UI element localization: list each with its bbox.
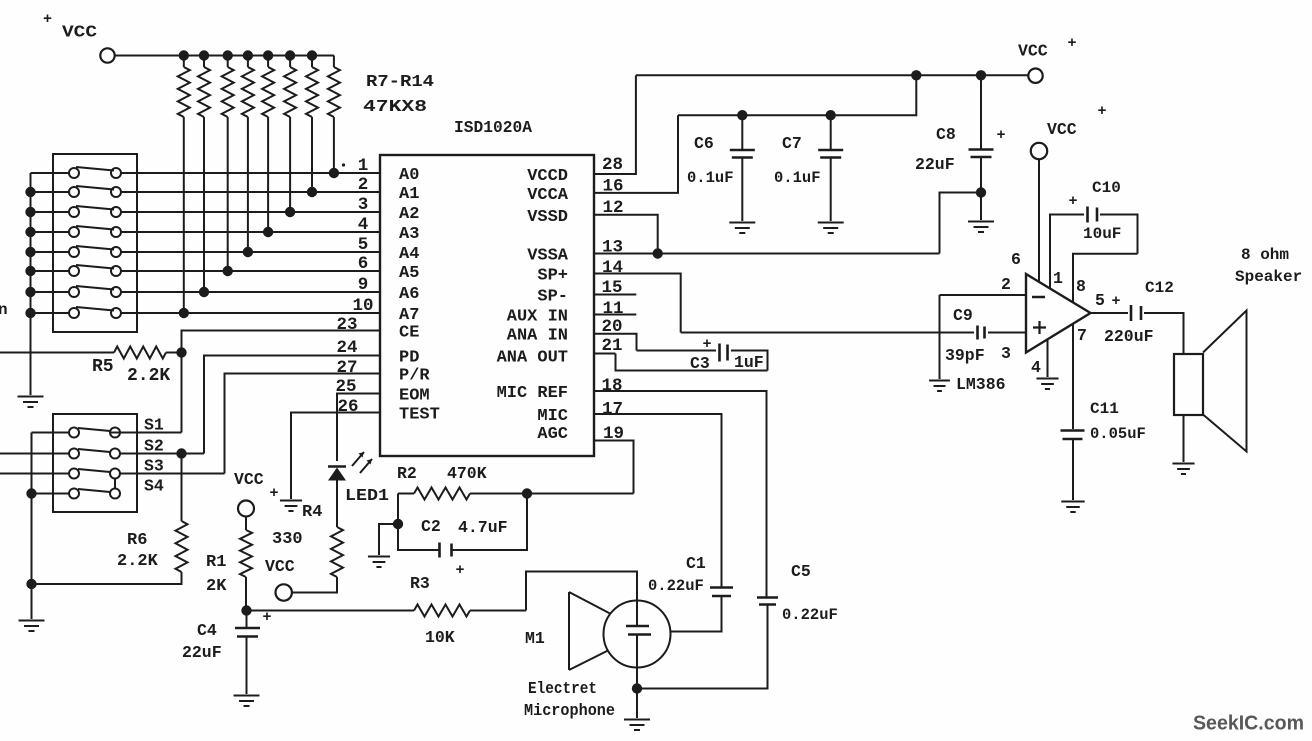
switch lever S4 — [78, 489, 110, 492]
switch lever A5 — [76, 265, 114, 269]
pin number 20 — [602, 317, 623, 337]
wire bus to switch A1 — [31, 191, 70, 193]
switch lever A1 — [76, 186, 114, 190]
junction CE/R5 — [176, 347, 186, 357]
capacitor C10 10uF — [1068, 193, 1097, 223]
label 0.1uF (C7) — [774, 169, 821, 187]
junction C8 bottom — [976, 187, 986, 197]
svg-text:+: + — [269, 485, 278, 502]
pin name TEST — [399, 406, 440, 425]
svg-text:LED1: LED1 — [345, 486, 389, 505]
wire bus to ground — [31, 584, 33, 619]
svg-text:28: 28 — [602, 155, 623, 175]
capacitor C3 1uF — [702, 336, 727, 362]
switch contact left A5 — [69, 266, 79, 276]
stray mark near pin 1 — [342, 163, 345, 166]
svg-text:0.1uF: 0.1uF — [774, 169, 821, 187]
svg-text:+: + — [1111, 293, 1120, 310]
svg-text:A7: A7 — [399, 306, 419, 325]
svg-text:2: 2 — [1001, 275, 1011, 294]
svg-text:C4: C4 — [197, 621, 217, 640]
svg-text:39pF: 39pF — [945, 346, 985, 365]
label C9 — [953, 306, 973, 325]
resistor R1 2K — [240, 517, 252, 611]
label 2K (R1) — [206, 577, 227, 596]
wire mic to C1 — [670, 597, 722, 632]
svg-text:7: 7 — [1077, 326, 1087, 345]
wire amp output — [1091, 312, 1129, 314]
pin number 28 — [602, 155, 623, 175]
svg-text:VCC: VCC — [1018, 42, 1048, 61]
wire EOM to LED1 — [337, 394, 380, 462]
pin name EOM — [399, 387, 430, 406]
pin number 19 — [603, 424, 624, 444]
svg-text:R5: R5 — [92, 357, 114, 377]
pin number 14 — [602, 258, 623, 278]
label S2 — [144, 437, 164, 456]
svg-text:12: 12 — [603, 198, 624, 218]
resistor R13 47K — [198, 56, 210, 293]
svg-text:R1: R1 — [206, 553, 226, 572]
ground under C8 — [968, 222, 994, 233]
pin number 24 — [336, 338, 357, 358]
label 0.22uF (C1) — [648, 577, 704, 595]
label 39pF (C9) — [945, 346, 985, 365]
junction VCC rail / R8 — [285, 50, 295, 60]
svg-text:TEST: TEST — [399, 406, 440, 425]
wire VCC to amp pin 6 — [1038, 159, 1040, 282]
svg-text:+: + — [262, 609, 271, 626]
label LM386 — [956, 375, 1006, 394]
ground under C6 — [729, 223, 755, 234]
ground at C2 — [368, 557, 390, 568]
wire A6 row to IC — [121, 291, 380, 293]
resistor R6 2.2K — [32, 454, 188, 585]
power VCC terminal at amp — [1031, 103, 1107, 159]
wire AUX IN stub — [594, 314, 636, 316]
svg-text:MIC: MIC — [537, 407, 568, 426]
label R5 — [92, 357, 114, 377]
wire C8/VSS link — [940, 193, 982, 254]
switch contact left A3 — [69, 227, 79, 237]
wire top VCC rail — [636, 74, 1028, 76]
svg-text:10K: 10K — [425, 628, 455, 647]
pin number 3 — [358, 195, 369, 215]
switch block S1-S4 — [53, 414, 137, 512]
ground at TEST — [280, 501, 302, 512]
capacitor C4 22uF — [235, 609, 272, 694]
wire bus to switch A6 — [31, 291, 70, 293]
junction bus — [25, 266, 35, 276]
wire A1 row to IC — [121, 191, 380, 193]
svg-text:2K: 2K — [206, 577, 227, 596]
svg-text:21: 21 — [602, 336, 623, 356]
label 10K (R3) — [425, 628, 455, 647]
junction VCC rail / R9 — [263, 50, 273, 60]
capacitor C9 39pF — [940, 326, 1027, 340]
microphone M1 body — [604, 601, 671, 668]
pin number 21 — [602, 336, 623, 356]
svg-text:2: 2 — [358, 175, 369, 195]
svg-text:LM386: LM386 — [956, 375, 1006, 394]
svg-text:4: 4 — [1031, 358, 1041, 377]
label 1uF (C3) — [734, 353, 764, 372]
svg-text:VSSA: VSSA — [527, 247, 569, 266]
svg-text:A3: A3 — [399, 225, 419, 244]
junction C7 top — [826, 110, 836, 120]
svg-text:R6: R6 — [127, 531, 147, 550]
switch lever A2 — [76, 206, 114, 210]
pin number 26 — [337, 397, 358, 417]
svg-text:C1: C1 — [686, 554, 706, 573]
switch lever S2 — [78, 449, 110, 452]
microphone M1 horn — [569, 592, 610, 670]
pin number 10 — [352, 296, 373, 316]
svg-text:C2: C2 — [421, 517, 441, 536]
pin name VCCD — [527, 167, 568, 186]
svg-text:C8: C8 — [936, 125, 956, 144]
switch contact right A0 — [111, 168, 121, 178]
capacitor C2 4.7uF — [398, 494, 527, 580]
svg-text:330: 330 — [272, 530, 303, 549]
speaker LS1 horn — [1203, 311, 1247, 452]
switch contact right A2 — [111, 207, 121, 217]
svg-text:22uF: 22uF — [915, 155, 955, 174]
wire C9 input node — [939, 295, 941, 379]
wire C3 to ANA OUT — [594, 351, 768, 371]
svg-text:13: 13 — [602, 238, 623, 258]
wire bus to switch A4 — [31, 251, 70, 253]
svg-text:ANA OUT: ANA OUT — [497, 349, 568, 368]
capacitor C7 0.1uF — [818, 115, 843, 221]
svg-text:6: 6 — [1011, 250, 1021, 269]
label 8 ohm — [1241, 246, 1289, 264]
label R1 — [206, 553, 226, 572]
junction VCC rail / R13 — [179, 50, 189, 60]
ground under C4 — [234, 696, 260, 707]
wire VSSD to VSSA — [594, 215, 658, 254]
svg-text:A4: A4 — [399, 245, 419, 264]
svg-text:26: 26 — [337, 397, 358, 417]
svg-text:VCC: VCC — [234, 470, 264, 489]
wire SP- stub — [594, 294, 636, 296]
svg-text:10: 10 — [352, 296, 373, 316]
capacitor C1 0.22uF — [710, 588, 733, 597]
svg-text:R3: R3 — [410, 574, 430, 593]
svg-text:5: 5 — [1095, 291, 1105, 310]
pin number 16 — [603, 177, 624, 197]
pin name MIC REF — [497, 384, 568, 403]
switch lever A7 — [76, 307, 114, 311]
label 4.7uF (C2) — [458, 518, 508, 537]
wire A5 row to IC — [121, 270, 380, 272]
pin number 7 — [1077, 326, 1087, 345]
switch contact left A1 — [69, 187, 79, 197]
junction VCC rail / R7 — [307, 50, 317, 60]
wire mic to ground node — [636, 635, 638, 689]
pin number 5 — [1095, 291, 1105, 310]
power VCC terminal top-right — [1018, 35, 1077, 83]
label 0.05uF (C11) — [1090, 425, 1146, 443]
label 220uF (C12) — [1104, 327, 1154, 346]
svg-text:2.2K: 2.2K — [127, 366, 170, 386]
wire bus to switch A0 — [31, 172, 70, 174]
pin name VCCA — [527, 186, 569, 205]
capacitor C6 0.1uF — [730, 115, 755, 221]
capacitor C8 22uF — [969, 75, 1006, 192]
wire A7 row to IC — [121, 312, 380, 314]
pin name A1 — [399, 185, 419, 204]
svg-text:C5: C5 — [791, 562, 811, 581]
pin number 2 — [1001, 275, 1011, 294]
junction bus — [25, 207, 35, 217]
svg-text:SeekIC.com: SeekIC.com — [1193, 712, 1304, 735]
label 47KX8 — [363, 98, 427, 117]
svg-text:S4: S4 — [144, 477, 164, 496]
resistor R11 47K — [242, 56, 254, 253]
pin name ANA IN — [507, 327, 568, 346]
svg-text:C11: C11 — [1090, 400, 1119, 418]
svg-text:C7: C7 — [782, 134, 802, 153]
junction mic/C5/ground — [632, 683, 642, 693]
switch contact right A6 — [111, 287, 121, 297]
pin number 27 — [336, 358, 357, 378]
label R7-R14 — [366, 73, 434, 92]
svg-text:A2: A2 — [399, 205, 419, 224]
svg-text:19: 19 — [603, 424, 624, 444]
pin number 2 — [358, 175, 369, 195]
wire CE to S1 — [182, 331, 381, 433]
svg-text:VCC: VCC — [265, 557, 295, 576]
label 2.2K (R6) — [117, 552, 159, 571]
pin number 18 — [602, 376, 623, 396]
pin number 5 — [358, 235, 369, 255]
wire A0 row to IC — [121, 172, 380, 174]
pin number 23 — [336, 315, 357, 335]
wire mic ground — [636, 689, 638, 719]
pin number 1 — [1053, 269, 1063, 288]
svg-text:1: 1 — [358, 156, 369, 176]
junction bus — [25, 247, 35, 257]
pin number 25 — [335, 377, 356, 397]
svg-text:16: 16 — [603, 177, 624, 197]
svg-text:18: 18 — [602, 376, 623, 396]
label S1 — [144, 416, 164, 435]
ground under C11 — [1061, 502, 1084, 513]
pin number 6 — [358, 254, 369, 274]
wire amp pin 4 to ground — [1047, 340, 1049, 377]
junction R7 / A0 row — [329, 168, 339, 178]
svg-text:10uF: 10uF — [1083, 225, 1121, 243]
label ISD1020A — [454, 119, 533, 138]
resistor R8 47K — [306, 56, 318, 193]
svg-text:17: 17 — [602, 400, 623, 420]
svg-text:A5: A5 — [399, 264, 419, 283]
svg-text:Speaker: Speaker — [1235, 268, 1302, 286]
LED D1 LED1 — [328, 467, 346, 528]
svg-text:27: 27 — [336, 358, 357, 378]
switch lever S3 — [78, 469, 110, 472]
wire VCC rail — [115, 55, 334, 57]
label R3 — [410, 574, 430, 593]
svg-text:5: 5 — [358, 235, 369, 255]
pin name A5 — [399, 264, 419, 283]
switch contact left A7 — [69, 308, 79, 318]
speaker LS1 body — [1174, 354, 1203, 415]
pin name ANA OUT — [497, 349, 568, 368]
svg-text:+: + — [455, 562, 464, 579]
switch contact left A6 — [69, 287, 79, 297]
junction VCC rail / R12 — [199, 50, 209, 60]
pin name A3 — [399, 225, 419, 244]
label C10 — [1092, 179, 1121, 197]
switch contact right S2 — [110, 449, 120, 459]
resistor R9 47K — [284, 56, 296, 213]
svg-text:23: 23 — [336, 315, 357, 335]
svg-text:AUX IN: AUX IN — [507, 308, 568, 327]
wire VCCA bus — [594, 75, 916, 193]
pin number 13 — [602, 238, 623, 258]
wire AGC to R2/C2 — [527, 441, 634, 494]
svg-text:+: + — [1097, 103, 1106, 120]
switch lever A6 — [76, 286, 114, 290]
svg-text:SP-: SP- — [537, 288, 568, 307]
ground at C9 — [929, 381, 950, 392]
capacitor C5 0.22uF — [757, 598, 778, 605]
svg-text:A0: A0 — [399, 166, 419, 185]
resistor R12 47K — [222, 56, 234, 272]
label R2 — [397, 464, 417, 483]
switch contact right A5 — [111, 266, 121, 276]
wire C12 to speaker — [1144, 313, 1184, 354]
wire pin7 to C11 — [1072, 324, 1074, 429]
pin number 1 — [358, 156, 369, 176]
label 0.22uF (C5) — [782, 606, 838, 624]
svg-text:M1: M1 — [525, 629, 545, 648]
microphone element plates — [626, 626, 651, 635]
svg-text:VCCA: VCCA — [527, 186, 569, 205]
label S4 — [144, 477, 164, 496]
capacitor C12 220uF — [1131, 305, 1141, 321]
svg-text:Electret: Electret — [528, 679, 597, 698]
wire amp - input — [940, 294, 1027, 296]
svg-text:1: 1 — [1053, 269, 1063, 288]
wire ANA IN to C3 — [594, 334, 716, 351]
switch contact right S3 — [110, 469, 120, 479]
svg-text:ISD1020A: ISD1020A — [454, 119, 533, 138]
junction S4/bus — [26, 488, 36, 498]
junction R12 / A5 row — [223, 266, 233, 276]
junction VCC rail/C8 — [976, 70, 986, 80]
capacitor C11 0.05uF — [1061, 431, 1085, 440]
label C7 — [782, 134, 802, 153]
switch contact right S1 — [110, 428, 120, 438]
switch contact left S4 — [69, 489, 79, 499]
junction VSSD/VSSA — [653, 248, 663, 258]
junction R13 / A6 row — [199, 287, 209, 297]
svg-text:470K: 470K — [447, 464, 487, 483]
switch lever S1 — [78, 428, 110, 431]
switch contact right A3 — [111, 227, 121, 237]
svg-text:VCC: VCC — [62, 24, 97, 43]
wire VCCD to VCC rail — [594, 75, 636, 174]
label Speaker — [1235, 268, 1302, 286]
pin name A7 — [399, 306, 419, 325]
pin number 3 — [1001, 344, 1011, 363]
wire R3 to microphone — [526, 572, 637, 627]
junction R6/S2 — [176, 448, 186, 458]
pin name MIC — [537, 407, 568, 426]
svg-text:0.22uF: 0.22uF — [648, 577, 704, 595]
power VCC terminal at R4 — [265, 557, 295, 601]
ground under C7 — [818, 223, 844, 234]
pin name A4 — [399, 245, 419, 264]
wire C5 to mic node — [641, 605, 768, 689]
label C6 — [694, 134, 714, 153]
svg-text:2.2K: 2.2K — [117, 552, 159, 571]
switch contact right S4 — [110, 489, 120, 499]
svg-text:VCC: VCC — [1047, 120, 1077, 139]
wire pin1 to C10 — [1050, 215, 1084, 289]
label M1 — [525, 629, 545, 648]
switch block SW1 (A0-A7) — [53, 154, 137, 332]
switch contact left A0 — [69, 168, 79, 178]
label 330 (R4) — [272, 530, 303, 549]
junction bus — [25, 187, 35, 197]
power VCC terminal top-left — [43, 11, 115, 63]
switch lever A4 — [76, 246, 114, 250]
ground bus left top — [18, 397, 44, 408]
IC U1 ISD1020A body — [380, 155, 594, 456]
svg-text:A6: A6 — [399, 285, 419, 304]
wire C10 to pin8 — [1073, 215, 1138, 303]
label C4 — [197, 621, 217, 640]
label R6 — [127, 531, 147, 550]
svg-text:MIC REF: MIC REF — [497, 384, 568, 403]
junction VCC rail/16-bus — [911, 70, 921, 80]
label C3 — [690, 354, 710, 373]
svg-text:C9: C9 — [953, 306, 973, 325]
pin number 11 — [603, 299, 624, 319]
junction R9 / A2 row — [285, 207, 295, 217]
switch contact left S2 — [69, 449, 79, 459]
resistor R5 2.2K — [0, 347, 182, 359]
wire S3 row — [0, 473, 225, 475]
ground at amp pin 4 — [1036, 379, 1058, 390]
label C11 — [1090, 400, 1119, 418]
svg-text:47KX8: 47KX8 — [363, 98, 427, 117]
svg-text:AGC: AGC — [537, 425, 568, 444]
svg-text:PD: PD — [399, 349, 419, 368]
label C2 — [421, 517, 441, 536]
svg-text:3: 3 — [358, 195, 369, 215]
svg-text:R4: R4 — [302, 503, 322, 522]
pin number 9 — [358, 275, 369, 295]
switch contact left A4 — [69, 247, 79, 257]
svg-text:+: + — [996, 127, 1005, 144]
pin name SP+ — [537, 267, 568, 286]
switch lever A3 — [76, 226, 114, 230]
switch contact right A4 — [111, 247, 121, 257]
junction R10 / A3 row — [263, 227, 273, 237]
ground under speaker — [1172, 464, 1194, 475]
wire S1 row — [32, 432, 182, 434]
junction bus — [25, 308, 35, 318]
pin name AUX IN — [507, 308, 568, 327]
label 22uF (C4) — [182, 643, 222, 662]
label 0.1uF (C6) — [687, 169, 734, 187]
svg-text:CE: CE — [399, 324, 419, 343]
